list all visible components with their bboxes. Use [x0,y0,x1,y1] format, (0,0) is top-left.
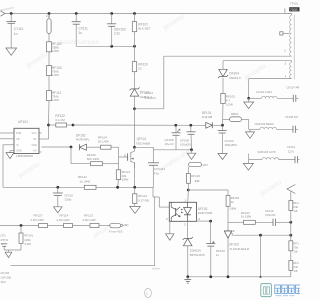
wire CBY102 branch [111,14,113,47]
wire RF102 to RF103 [48,52,50,66]
capacitor CY113 [6,22,23,36]
wire row1 left [249,97,262,99]
svg-text:CMF103 BEAD: CMF103 BEAD [255,122,274,126]
ground CF110 arrow [54,207,63,213]
svg-text:1KV: 1KV [0,280,6,284]
junction dot x117 y187 [116,186,119,189]
junction dot y46 x134 [133,45,136,48]
pin 2 mark [284,48,286,52]
wire CF110 to gnd [57,196,59,207]
svg-text:UF102: UF102 [198,207,208,211]
svg-text:1/8W: 1/8W [230,207,237,211]
svg-text:R: R [233,229,235,233]
svg-text:RF113: RF113 [84,214,93,218]
svg-text:1/8: 1/8 [293,249,297,253]
svg-text:1: 1 [146,292,148,296]
svg-text:CF112: CF112 [287,145,296,149]
wire x260 down [260,235,262,277]
junction dot VCC node [47,124,50,127]
wire primary bottom y56 [164,55,292,57]
wire RF104 to corner [111,146,119,148]
resistor RF106 [87,153,103,166]
wire chain seg2 [73,225,91,227]
wire x290 to rail [290,270,292,276]
svg-text:QF101: QF101 [137,137,147,141]
resistor RF114 [57,214,73,228]
svg-text:FB: FB [16,138,20,141]
capacitor CF143 [206,221,225,257]
junction dot x190 y125 [189,124,192,127]
svg-text:BD: BD [125,223,129,227]
resistor RF121 [116,170,130,182]
capacitor CF107 [293,95,298,102]
capacitor CF1 left [0,234,8,250]
wire secondary rail [188,276,291,278]
junction dot x187 y276 [186,275,189,278]
wire aux bottom y78 [249,78,292,80]
wire fuse to RF102 [48,34,50,42]
wire RF118 to TL431 [227,222,229,231]
inductor CMF104 [258,145,296,160]
ground RF131 arrow [130,206,141,213]
wire x290 down2 [290,251,292,261]
svg-text:FU: FU [46,15,50,19]
wire drain horizontal y108 [135,108,164,110]
wire VCC rail left [49,124,56,126]
transformer TF101 label [289,2,299,12]
svg-text:HB01: HB01 [231,112,239,116]
svg-text:TL431B-AE3-R: TL431B-AE3-R [230,247,250,251]
svg-text:CF103: CF103 [0,271,9,275]
capacitor CX111 [72,22,88,35]
svg-text:1u: 1u [216,253,220,257]
svg-text:1k 1/4W: 1k 1/4W [80,180,91,184]
wire row1 right [277,97,293,99]
wire drain stub right [135,146,154,148]
svg-text:50 1/4W: 50 1/4W [98,139,109,143]
junction dot x21 y225 [20,224,23,227]
inductor CMF103 [255,115,299,129]
junction dot x228 y276 [227,275,230,278]
svg-text:22: 22 [138,67,142,71]
zener DF103 [129,87,152,99]
pin 4 mark [285,75,287,79]
wire IC to gate net [42,146,72,148]
wire x290 down1 [290,222,292,241]
transformer aux winding [290,62,292,78]
wire oval to RF119 [187,167,189,174]
junction dot x260 y235 [259,234,262,237]
svg-text:2.2n: 2.2n [114,32,120,36]
zener DF104 [218,69,241,80]
svg-text:1n: 1n [14,32,18,36]
node AC input arrow [1,11,5,16]
svg-text:750B: 750B [290,8,297,12]
op-amp U opto UF102 body [169,202,196,221]
wire RF105 to aux node [222,103,225,125]
wire RF119 to node [187,183,189,190]
svg-text:150n(50V: 150n(50V [225,143,238,147]
svg-text:CY113: CY113 [14,27,24,31]
diode DF102 [76,133,90,150]
jumper 12N oval [189,162,208,167]
svg-text:1/8W: 1/8W [122,178,129,182]
wire rail to primary top [288,14,292,16]
wire row2 left [249,128,260,130]
wire row3 stub [248,154,250,160]
wire feedback to RF118 [188,189,228,191]
wire DF104 to RF105 [222,78,224,93]
wire gnd stub CF106 [191,150,193,153]
ground row2 arrow [246,129,255,138]
wire chain seg1 [48,225,64,227]
junction dot x210 y276 [209,275,212,278]
wire ground rail [3,186,84,188]
svg-text:CX111: CX111 [79,26,88,30]
svg-text:1nF-250: 1nF-250 [0,275,11,279]
svg-text:BZT52-B15: BZT52-B15 [190,253,205,257]
junction dot x222 y125 [221,124,224,127]
svg-text:0.1-1M: 0.1-1M [55,118,65,122]
wire opto pin4 [197,220,211,222]
resistor RF111 [47,91,62,102]
svg-text:127u: 127u [288,150,295,154]
wire pin2 left [0,138,14,140]
wire RF121 to rail [117,180,120,188]
resistor RF123 [241,211,255,225]
svg-text:16v-10: 16v-10 [165,142,174,146]
ground IC GND arrow [6,153,14,159]
opto label [198,207,213,215]
capacitor CF103 [218,125,237,147]
resistor RF113 [83,214,100,228]
svg-text:2n2(1kV): 2n2(1kV) [145,96,156,100]
svg-text:RF112: RF112 [78,175,87,179]
diode DF101 [202,111,213,128]
svg-text:3.3M: 3.3M [24,242,31,246]
svg-text:IS: IS [16,144,19,147]
pin number 4 opto [198,217,200,221]
svg-text:UF103: UF103 [229,242,239,246]
svg-text:330p: 330p [65,198,72,202]
capacitor CF106 [180,125,196,146]
wire RF106 link [71,147,91,164]
junction dot x71 y147 [70,146,73,149]
capacitor CF105 [165,125,181,146]
svg-text:dianziyuanjian: dianziyuanjian [58,39,100,46]
wire RF131 to gnd [134,203,136,206]
resistor RF122 [55,114,66,127]
svg-text:1W: 1W [195,179,200,183]
ground secondary bars [184,277,191,283]
wire pin3 IS to rail [3,145,14,188]
wire fb row mid [255,221,273,223]
wire RF122 to dot73 [67,124,73,126]
svg-text:RLFD40FL: RLFD40FL [76,137,90,141]
resistor RF101 [132,22,150,32]
wire aux bottom to row1 [248,79,250,99]
junction dot top rail x11 [10,12,13,15]
svg-text:1N4148: 1N4148 [202,115,213,119]
svg-text:1/4W: 1/4W [52,73,59,77]
resistor RF127 [31,214,48,228]
wire aux top y61 [223,61,292,63]
opto light arrows [181,209,183,213]
transformer core tap square [280,32,290,35]
junction dot drain [133,146,136,149]
wire FB chain left [0,225,39,227]
wire gate tap [119,156,128,158]
op-amp U IC UF101 label [18,120,28,124]
svg-text:1k 1/8W: 1k 1/8W [241,215,252,219]
capacitor CF108 [293,126,298,133]
svg-text:500 1/4W: 500 1/4W [87,157,100,161]
wire aux rail mid [73,124,206,126]
wire COY111 down [135,165,154,187]
resistor RF126 [289,260,299,273]
resistor RF104 [98,135,111,149]
capacitor CF116 [265,209,276,226]
junction dot y46 x112 [110,45,113,48]
resistor RF105 [221,93,235,106]
svg-text:HV: HV [33,150,37,153]
junction dot x210 y221 [209,220,212,223]
pin stubs right [39,133,42,152]
note text CF bottom left [0,271,11,284]
transformer primary winding [290,15,295,80]
svg-text:1/8: 1/8 [293,209,297,213]
resistor RF119 [186,174,200,184]
pin 1 mark [284,8,286,13]
junction dot top rail x134 [133,12,136,15]
capacitor COY111 [148,147,165,175]
wire drain vertical x163 [163,56,165,109]
pin 3 mark [285,62,287,66]
svg-text:BLK DET: BLK DET [138,27,150,31]
wire rail mid [96,186,153,188]
logo icon book [261,284,272,297]
ground CF103 arrow [218,154,227,160]
svg-text:2.2M 1/4W: 2.2M 1/4W [83,218,96,222]
wire CX111 branch [75,14,77,47]
jumper BD oval [109,223,129,233]
capacitor CBY102 [107,24,126,36]
wire drain to QF101 [134,109,136,148]
junction dot x290 y235 [289,234,292,237]
capacitor CF110 stub [57,187,59,193]
resistor RF125 [289,241,299,254]
resistor RF112 [78,175,96,189]
svg-text:1/4W: 1/4W [52,49,59,53]
junction dot x248 y98 [247,97,250,100]
wire pin4 GND [10,151,14,153]
wire CF106 down [190,134,193,150]
svg-text:TB11A60B: TB11A60B [136,142,150,146]
wire RF118 to T [227,206,229,222]
TL431 labels [229,242,249,251]
svg-text:LM5000D08: LM5000D08 [16,154,33,158]
resistor RF124 [289,201,299,214]
node page mark 1 [145,288,152,297]
pin number 3 opto [166,217,168,221]
resistor RF131 [133,187,150,203]
ground opto emitter arrow [166,234,174,240]
resistor RF110 [132,62,148,72]
svg-text:GND: GND [16,150,22,153]
wire row2 right [277,128,294,130]
wire DF102 to RF104 [87,146,101,148]
wire CY113 branch [10,14,12,49]
resistor RF118 [226,190,239,211]
svg-text:1/8: 1/8 [293,269,297,273]
svg-text:0.27-3W: 0.27-3W [138,198,149,202]
separator dashes [152,268,160,270]
wire ref row [232,234,291,236]
wire fb row left [228,221,244,223]
ground row3 arrow [243,160,253,171]
wire opto pin2 down [187,221,189,238]
svg-text:100n(50: 100n(50 [180,142,191,146]
junction dot x188 y190 [187,189,190,192]
svg-text:TF101: TF101 [290,2,299,6]
wire ZDM106 to rail [187,246,189,277]
junction dot x57 y187 [56,186,59,189]
wire oval to row2 [242,119,249,129]
resistor RF103 [47,66,62,77]
pin number 1 opto [184,199,186,203]
junction dot x260 y276 [259,276,261,278]
wire opto emitter [169,221,171,234]
wire chain seg3 [99,225,110,227]
IC UF101 part number [16,154,33,158]
svg-text:47p: 47p [154,171,159,175]
wire row3 left [249,159,262,161]
svg-text:CF104: CF104 [145,91,154,95]
wire gate vertical x118 [118,147,120,170]
svg-text:NC: NC [33,138,37,141]
svg-text:04DZ4-X: 04DZ4-X [229,76,241,80]
node output connector wedge [287,185,295,194]
resistor RF141 [19,233,33,246]
junction dot top rail x49 [48,12,51,15]
svg-text:VDD: VDD [32,144,37,147]
wire CF143 to rail [210,246,212,277]
wire wedge down [290,191,292,200]
opto phototransistor [171,202,180,221]
svg-text:ZDM106: ZDM106 [190,249,201,253]
ground CF106 arrow [187,153,196,159]
svg-text:470n(50: 470n(50 [265,213,276,217]
zener ZDM106 [183,237,205,257]
junction dot x134 y187 [133,186,136,189]
svg-text:2.2M 1/4W: 2.2M 1/4W [31,218,44,222]
svg-text:2.2M 1/4W: 2.2M 1/4W [57,218,70,222]
junction dot x73 y125 [72,124,75,127]
wire link y149 [153,149,191,151]
note text left of drain [145,91,156,100]
capacitor CF110 plates [53,193,74,202]
ground left small arrow [5,250,12,258]
svg-text:CF108 107: CF108 107 [285,115,299,119]
transistor UF103 TL431 [224,229,234,238]
wire isolation separator [11,196,155,265]
wire fb row right [276,221,291,223]
svg-text:1u: 1u [79,31,83,35]
inductor LF101 [256,86,299,99]
svg-text:BHE: BHE [16,132,21,135]
wire RF141 bottom [4,243,21,250]
svg-text:12N: 12N [202,163,207,167]
junction dot drain-upper [133,107,136,110]
junction dot x191 y149 [190,148,193,151]
resistor RF102 [47,42,62,53]
wire DF103 to drain node [134,96,136,109]
wire RF111 to VCC node [48,101,51,125]
wire RF106 to x118 [103,163,119,165]
svg-text:RF127: RF127 [34,214,43,218]
wire RF110 to DF103 [134,72,136,89]
wire CF103 down [222,133,224,154]
svg-text:LF101 112H: LF101 112H [256,90,272,94]
svg-text:CF107-4R: CF107-4R [287,86,300,90]
svg-text:UF101: UF101 [18,120,28,124]
capacitor CF112 [295,156,300,163]
transistor QF101 [124,137,150,168]
logo text [275,285,301,296]
wire rail to opto collector [153,187,169,207]
opto LED [184,202,192,221]
wire pin1 left [0,132,14,134]
svg-text:CMF104 127R: CMF104 127R [258,150,276,154]
IC UF101 body [14,128,39,153]
ground row1 arrow [244,98,254,108]
svg-text:VCC: VCC [32,132,37,135]
wire TL431 to rail [227,238,229,277]
wire RF141 up [20,226,22,234]
junction dot x290 y222 [289,221,292,224]
fuse FU101 [46,14,51,34]
wire top rail [5,13,291,15]
svg-text:1/4W: 1/4W [52,98,59,102]
junction dot top rail x76 [75,12,78,15]
wire pin8 VCC up [39,125,49,139]
svg-text:EL817W(B: EL817W(B [198,211,213,215]
wire bottom link y46 [76,45,134,47]
wire RF124 to dot [290,211,292,223]
pin number 2 opto [184,222,186,226]
wire CF105 down [175,135,177,150]
svg-text:RF119: RF119 [191,174,200,178]
svg-text:1/2W: 1/2W [226,103,233,107]
wire DF101 to node [213,124,222,126]
ground CY113 [6,48,17,55]
wire aux to DF104 [222,61,224,70]
wire row3 right [279,159,295,161]
wire top to RF101 [134,14,136,22]
svg-text:F:nom 40.5: F:nom 40.5 [109,229,123,233]
junction dot top rail x112 [110,12,113,15]
wire opto pin1 up [187,190,190,202]
svg-text:RF114: RF114 [60,214,69,218]
jumper HB01 oval [223,112,242,122]
junction dot x175 y125 [174,124,177,127]
wire RF101 to RF110 [134,32,136,62]
wire RF103 to RF111 [48,76,50,91]
wire QF101 source to rail [134,163,136,188]
